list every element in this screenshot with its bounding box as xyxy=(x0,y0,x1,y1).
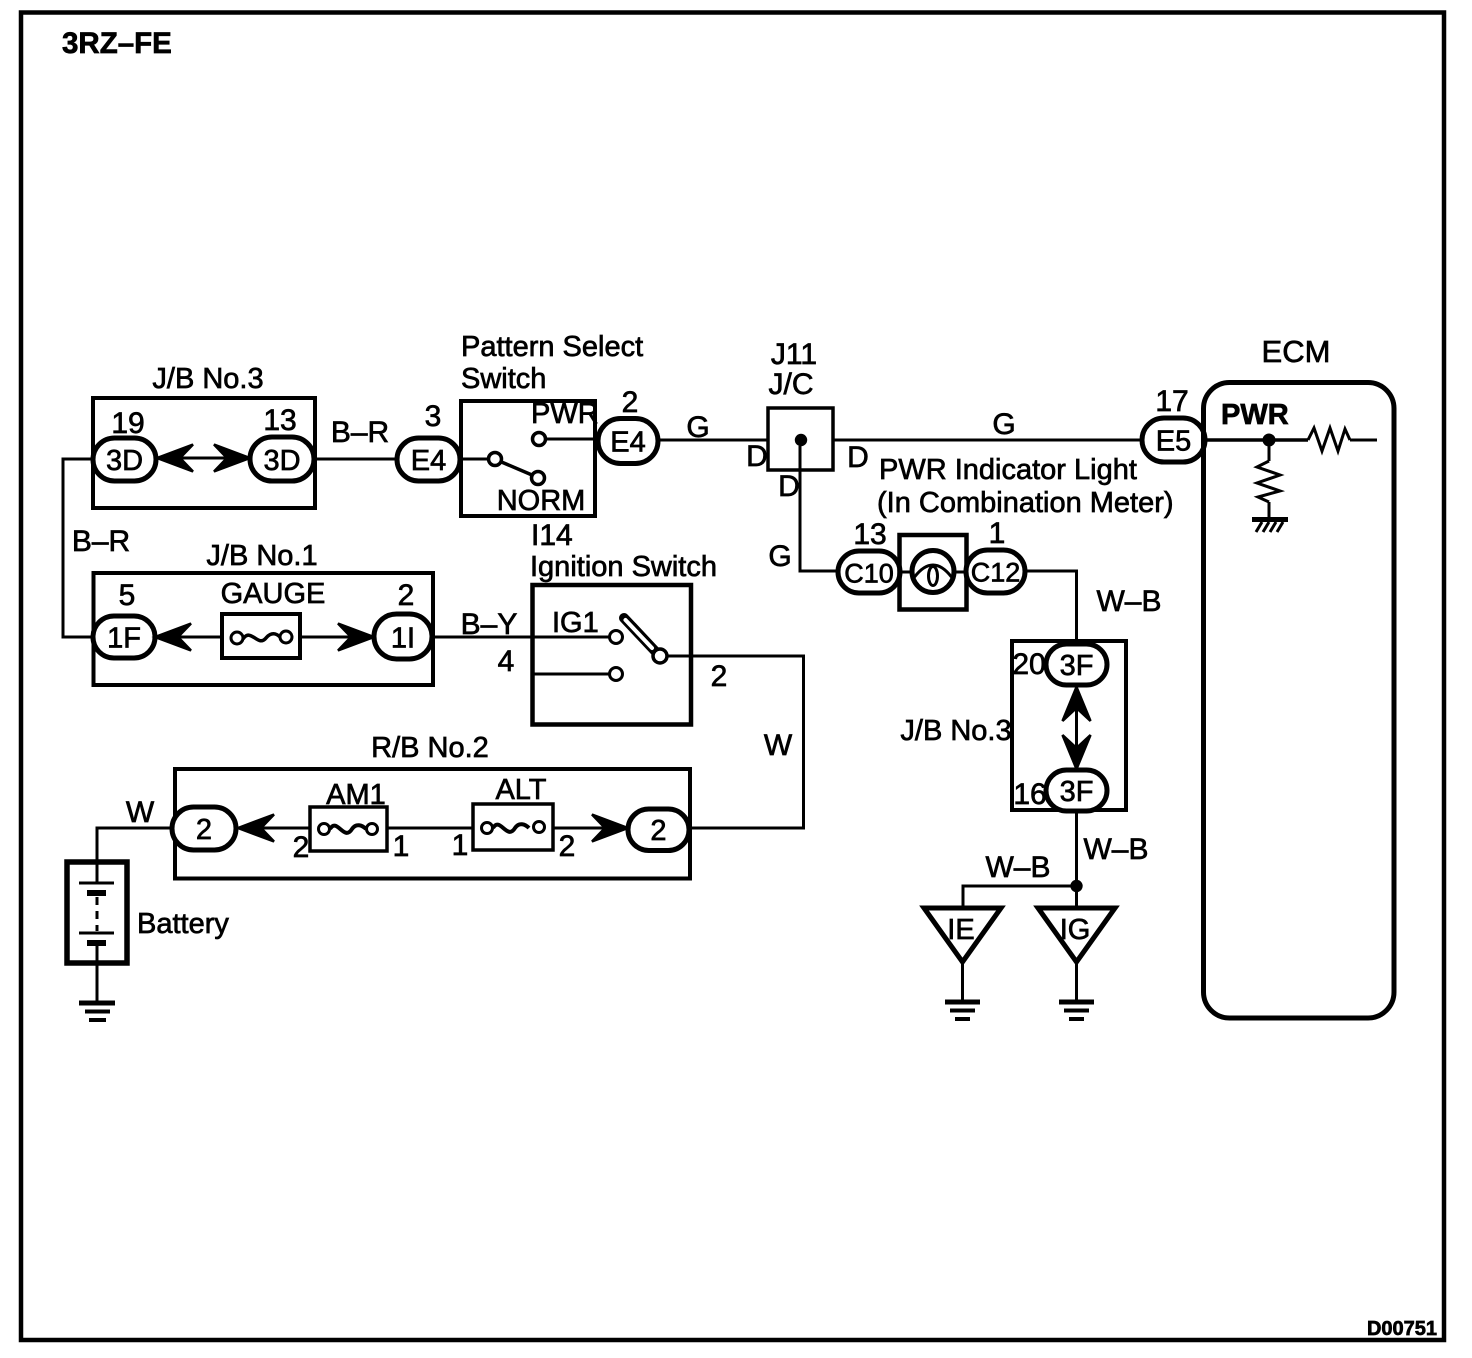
svg-text:13: 13 xyxy=(263,404,296,437)
svg-text:C12: C12 xyxy=(971,558,1021,588)
connector 3D pin 13 xyxy=(250,437,314,481)
wire between arrows xyxy=(180,457,227,460)
wire W-B down from 3F xyxy=(1075,811,1078,908)
wire to lower contact xyxy=(532,673,609,676)
pattern select switch S1 xyxy=(461,331,643,516)
connector 3D pin 19 xyxy=(93,438,156,481)
svg-text:PWR: PWR xyxy=(531,398,599,430)
connector 2 (left) xyxy=(172,807,236,850)
svg-text:B–Y: B–Y xyxy=(461,608,518,641)
svg-text:G: G xyxy=(686,411,709,444)
connector E5 pin 17 xyxy=(1142,418,1205,462)
arrow right (J/B No.1) xyxy=(338,624,374,651)
fuse AM1 xyxy=(310,807,387,851)
wire to fuse xyxy=(178,636,222,639)
ignition key lever xyxy=(624,618,655,651)
connector E4 pin 2 xyxy=(598,419,658,464)
svg-text:NORM: NORM xyxy=(497,485,586,517)
connector 3F pin 20 xyxy=(1046,644,1107,685)
wire ALT to arrow xyxy=(553,827,605,830)
connector 2 (right) xyxy=(628,809,689,851)
wire fuse to arrow xyxy=(300,636,351,639)
fuse GAUGE xyxy=(222,614,300,658)
svg-text:C10: C10 xyxy=(844,559,894,589)
ECM U1 xyxy=(1204,334,1395,1018)
junction block J/B No.1 xyxy=(94,540,434,685)
svg-text:W: W xyxy=(126,796,155,829)
arrow left (J/B No.3) xyxy=(157,445,193,472)
svg-text:G: G xyxy=(992,408,1015,441)
svg-text:W–B: W–B xyxy=(1096,585,1161,618)
svg-text:2: 2 xyxy=(398,579,415,612)
lower contact xyxy=(610,668,623,681)
wire to left contact xyxy=(461,458,489,461)
junction block J/B No.3 (top) xyxy=(93,363,315,508)
svg-text:Battery: Battery xyxy=(137,908,229,940)
svg-text:I14: I14 xyxy=(531,519,573,552)
arrow left (J/B No.1) xyxy=(155,624,191,651)
svg-text:3F: 3F xyxy=(1060,776,1094,808)
svg-text:2: 2 xyxy=(293,831,310,864)
svg-text:17: 17 xyxy=(1155,385,1188,418)
wire pin2 of ignition to R/B No.2 xyxy=(667,656,804,828)
switch common contact xyxy=(489,453,502,466)
svg-text:PWR: PWR xyxy=(1221,399,1289,431)
arrow left (R/B No.2) xyxy=(238,815,274,842)
svg-text:J/B No.1: J/B No.1 xyxy=(206,540,317,572)
svg-text:D: D xyxy=(778,470,800,503)
svg-text:ALT: ALT xyxy=(495,774,546,806)
connector C12 pin 1 xyxy=(966,550,1025,593)
ignition switch S2 (I14) xyxy=(530,551,717,725)
svg-text:4: 4 xyxy=(498,645,515,678)
ECM internal ground xyxy=(1252,520,1288,533)
svg-text:IG1: IG1 xyxy=(552,607,599,639)
wire W-B: C12 to J/B No.3 xyxy=(1025,571,1077,644)
arrow up (J/B No.3) xyxy=(1063,687,1091,721)
svg-text:2: 2 xyxy=(711,660,728,693)
NORM contact xyxy=(532,472,545,485)
svg-text:G: G xyxy=(768,540,791,573)
connector 3F pin 16 xyxy=(1046,770,1107,811)
svg-text:Ignition Switch: Ignition Switch xyxy=(530,551,717,583)
switch lever (NORM position) xyxy=(502,462,533,475)
svg-text:2: 2 xyxy=(559,830,576,863)
svg-text:W–B: W–B xyxy=(1083,833,1148,866)
wire arrow to AM1 xyxy=(261,827,310,830)
svg-text:J11: J11 xyxy=(771,338,817,371)
svg-text:E4: E4 xyxy=(610,427,645,459)
svg-text:1: 1 xyxy=(989,517,1006,550)
svg-text:D: D xyxy=(847,441,869,474)
arrow right (R/B No.2) xyxy=(592,815,628,842)
node dot in ECM xyxy=(1264,435,1275,446)
resistor R (horizontal) xyxy=(1308,428,1377,451)
svg-text:5: 5 xyxy=(119,579,136,612)
wire to IG1 contact xyxy=(532,636,609,639)
svg-text:2: 2 xyxy=(650,815,666,847)
svg-text:2: 2 xyxy=(196,814,212,846)
svg-text:3F: 3F xyxy=(1060,650,1094,682)
wire D: J/C down to meter xyxy=(800,446,838,571)
relay block R/B No.2 xyxy=(175,732,690,879)
arrow right (J/B No.3) xyxy=(214,445,250,472)
wire W to battery xyxy=(97,828,172,862)
svg-text:3D: 3D xyxy=(263,445,300,477)
svg-text:D: D xyxy=(746,440,768,473)
svg-text:3: 3 xyxy=(425,400,442,433)
ground connector IG xyxy=(1038,908,1115,1000)
PWR contact xyxy=(533,433,546,446)
ground symbol (IE) xyxy=(945,1002,980,1019)
svg-text:16: 16 xyxy=(1013,778,1046,811)
svg-text:13: 13 xyxy=(853,518,886,551)
connector C10 pin 13 xyxy=(838,551,900,593)
junction connector J11 J/C xyxy=(768,338,833,470)
connector E4 pin 3 xyxy=(397,438,460,481)
pivot contact xyxy=(653,649,667,663)
wire battery to ground xyxy=(96,963,99,1001)
arrow down (J/B No.3) xyxy=(1063,735,1091,769)
resistor R (pull-down vertical) xyxy=(1257,446,1280,517)
wire G: J/C to E5 xyxy=(833,439,1142,442)
svg-text:2: 2 xyxy=(622,386,639,419)
fuse ALT xyxy=(473,804,553,850)
wire between 3F connectors xyxy=(1075,685,1078,770)
svg-text:3D: 3D xyxy=(106,445,143,477)
indicator lamp (bulb) xyxy=(900,535,967,610)
svg-text:E5: E5 xyxy=(1156,426,1191,458)
svg-text:20: 20 xyxy=(1012,648,1045,681)
svg-text:3RZ–FE: 3RZ–FE xyxy=(62,27,172,60)
svg-text:GAUGE: GAUGE xyxy=(221,578,326,610)
ground symbol (battery) xyxy=(79,1003,115,1020)
wire AM1 to ALT xyxy=(387,827,473,830)
wire PWR contact to box edge xyxy=(546,438,596,441)
junction node dot xyxy=(1071,881,1081,891)
svg-text:1I: 1I xyxy=(391,623,415,655)
svg-text:D00751: D00751 xyxy=(1367,1318,1437,1340)
wire B-Y to ignition switch xyxy=(432,636,532,639)
connector 1I pin 2 xyxy=(374,614,432,659)
svg-text:1: 1 xyxy=(393,830,410,863)
svg-text:B–R: B–R xyxy=(72,525,130,558)
wire inside ECM xyxy=(1205,438,1308,442)
junction block J/B No.3 (lower) xyxy=(900,641,1126,810)
svg-text:R/B No.2: R/B No.2 xyxy=(371,732,489,764)
svg-text:W: W xyxy=(764,729,793,762)
IG1 contact xyxy=(610,631,623,644)
svg-text:ECM: ECM xyxy=(1262,334,1331,369)
svg-text:J/B No.3: J/B No.3 xyxy=(900,715,1011,747)
svg-text:1: 1 xyxy=(452,829,469,862)
wire B-R left branch xyxy=(63,459,93,637)
svg-text:J/C: J/C xyxy=(769,368,814,401)
wire W-B branch to IE xyxy=(963,886,1077,908)
svg-text:Pattern Select: Pattern Select xyxy=(461,331,643,363)
wire G: E4 to J/C xyxy=(658,439,768,442)
svg-text:19: 19 xyxy=(111,407,144,440)
svg-text:IE: IE xyxy=(947,914,974,946)
wire B-R to E4 xyxy=(314,458,397,461)
svg-text:B–R: B–R xyxy=(331,416,389,449)
junction node dot xyxy=(796,435,806,445)
svg-text:PWR Indicator Light: PWR Indicator Light xyxy=(879,454,1137,486)
svg-text:E4: E4 xyxy=(411,445,446,477)
ground symbol (IG) xyxy=(1059,1002,1094,1019)
svg-text:W–B: W–B xyxy=(985,851,1050,884)
connector 1F pin 5 xyxy=(93,616,155,658)
svg-text:IG: IG xyxy=(1060,914,1091,946)
svg-text:J/B No.3: J/B No.3 xyxy=(152,363,263,395)
ground connector IE xyxy=(924,908,1001,1000)
svg-text:1F: 1F xyxy=(107,623,141,655)
svg-text:(In Combination Meter): (In Combination Meter) xyxy=(877,487,1174,519)
battery B1 xyxy=(67,862,127,963)
svg-text:Switch: Switch xyxy=(461,363,546,395)
